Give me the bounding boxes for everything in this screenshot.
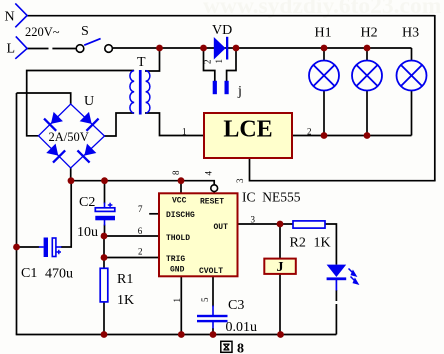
svg-text:j: j — [237, 84, 242, 99]
wire L to switch — [27, 48, 49, 50]
svg-text:1K: 1K — [117, 293, 134, 308]
wire transformer primary top — [145, 48, 160, 71]
svg-text:3: 3 — [235, 178, 245, 183]
capacitor C1 — [39, 238, 62, 258]
LED — [327, 265, 347, 291]
node junction (104,257.5) — [101, 254, 108, 261]
wire N rail to LCE pin 3 — [250, 158, 436, 181]
node junction (367,48) — [364, 45, 371, 52]
svg-text:H2: H2 — [361, 26, 378, 41]
wire H1 top stub — [323, 48, 325, 61]
wire pin 6 THOLD — [104, 235, 159, 237]
bridge rectifier U outline — [39, 104, 105, 168]
node junction (203.5,48) — [200, 45, 207, 52]
svg-text:R1: R1 — [117, 272, 133, 287]
wire C2 top stub — [104, 181, 106, 204]
node junction (16.5,247) — [13, 244, 20, 251]
svg-text:R2: R2 — [290, 236, 306, 251]
wire secondary bottom to bridge right — [105, 113, 135, 136]
wire pin 7 stub — [149, 213, 159, 215]
svg-text:7: 7 — [138, 204, 143, 214]
relay contact j — [213, 81, 217, 94]
svg-text:C1: C1 — [21, 266, 37, 281]
svg-text:10u: 10u — [77, 225, 98, 240]
svg-text:S: S — [81, 24, 89, 39]
svg-text:H1: H1 — [315, 26, 332, 41]
diode VD — [214, 37, 229, 60]
op IC NE555 box U1 — [159, 193, 238, 276]
svg-text:C3: C3 — [228, 298, 244, 313]
node junction (159.5,48) — [156, 45, 163, 52]
svg-text:THOLD: THOLD — [166, 234, 190, 243]
terminal L — [15, 36, 27, 58]
svg-text:VD: VD — [212, 23, 232, 38]
node junction (181,180.7) — [178, 177, 185, 184]
capacitor C3 — [197, 306, 228, 329]
svg-text:2: 2 — [307, 127, 312, 137]
transformer T secondary winding — [130, 71, 134, 113]
wire node column C2 to R1 — [103, 236, 105, 268]
svg-text:J: J — [277, 260, 284, 275]
wire top rail N — [27, 15, 435, 17]
svg-text:LCE: LCE — [223, 117, 272, 143]
wire VD anode to contact j — [204, 48, 215, 81]
svg-text:T: T — [137, 55, 146, 70]
wire right border — [434, 15, 436, 181]
wire H3 top — [411, 48, 413, 61]
resistor R2 — [293, 221, 325, 228]
wire LED cathode — [335, 290, 337, 301]
node junction (280,224) — [277, 221, 284, 228]
lamp H3 — [397, 61, 427, 91]
wire H1 bottom — [323, 91, 325, 136]
wire bridge bottom to +node — [70, 168, 72, 181]
svg-text:220V~: 220V~ — [25, 25, 60, 39]
wire relay J to ground rail — [279, 274, 281, 335]
wire pin 2 TRIG — [104, 257, 159, 259]
wire bottom ground rail — [16, 334, 337, 336]
bridge diode top-left — [43, 110, 64, 131]
block LCE — [204, 113, 292, 158]
svg-text:0.01u: 0.01u — [226, 320, 258, 335]
pin 4 reset circle — [211, 185, 218, 192]
node junction (104,334.5) — [101, 331, 108, 338]
switch S — [76, 45, 84, 53]
wire pin 3 OUT — [238, 223, 294, 225]
wire C1 right to +node — [61, 181, 71, 247]
svg-text:8: 8 — [171, 170, 181, 175]
relay coil J — [264, 259, 296, 274]
svg-text:U: U — [84, 94, 94, 109]
svg-text:N: N — [5, 10, 15, 25]
svg-text:C2: C2 — [79, 195, 95, 210]
svg-text:GND: GND — [170, 265, 185, 274]
node junction (367,135.5) — [364, 132, 371, 139]
lamp H1 — [309, 61, 339, 91]
wire pin 8 stub — [180, 181, 182, 193]
svg-text:4: 4 — [204, 171, 214, 176]
svg-text:L: L — [7, 42, 16, 57]
wire C1 left — [17, 246, 40, 248]
svg-text:H3: H3 — [402, 26, 419, 41]
wire R1 bottom — [103, 302, 105, 335]
bridge diode top-right — [78, 110, 99, 131]
capacitor C2 — [95, 203, 115, 226]
node junction (324,48) — [321, 45, 328, 52]
wire H3 bottom — [411, 91, 413, 136]
wire pin 4 stub — [213, 192, 215, 193]
node junction (236,48) — [233, 45, 240, 52]
lamp H2 — [352, 61, 382, 91]
node junction (71,180.7) — [68, 177, 75, 184]
svg-text:CVOLT: CVOLT — [199, 267, 223, 276]
wire pin 1 GND — [180, 277, 182, 335]
transformer T primary winding — [146, 71, 150, 113]
svg-text:1K: 1K — [314, 236, 331, 251]
resistor R1 — [100, 268, 108, 302]
svg-text:470u: 470u — [45, 267, 73, 282]
wire switch to lamps — [113, 47, 412, 49]
bridge diode bottom-right — [77, 142, 98, 163]
wire C3 to ground rail — [212, 328, 214, 335]
svg-text:8: 8 — [237, 342, 244, 354]
svg-text:2: 2 — [202, 60, 212, 65]
wire + rail — [71, 181, 215, 185]
wire secondary top to bridge left — [27, 71, 134, 136]
wire R2 to LED — [325, 224, 336, 265]
svg-text:OUT: OUT — [214, 223, 229, 232]
node junction (104,236) — [101, 233, 108, 240]
node junction (280.5,334.5) — [277, 331, 284, 338]
svg-text:IC NE555: IC NE555 — [242, 190, 301, 205]
wire LCE pin 1 to transformer — [145, 113, 204, 136]
wire left ground rail — [16, 93, 18, 335]
transformer T core — [139, 70, 142, 115]
node junction (181.3,334.5) — [178, 331, 185, 338]
wire H2 bottom — [366, 91, 368, 136]
svg-text:TRIG: TRIG — [166, 255, 185, 264]
caption 图 8 — [221, 341, 232, 352]
wire pin 5 CVOLT to C3 — [212, 277, 214, 307]
svg-text:3: 3 — [251, 215, 256, 225]
svg-text:1: 1 — [214, 59, 224, 64]
wire H2 top stub — [366, 48, 368, 61]
terminal N — [15, 3, 27, 27]
svg-text:DISCHG: DISCHG — [166, 211, 195, 220]
node junction (104.5,180.7) — [101, 177, 108, 184]
svg-text:RESET: RESET — [200, 197, 224, 206]
svg-text:1: 1 — [172, 298, 182, 303]
svg-text:6: 6 — [138, 226, 143, 236]
svg-text:2A/50V: 2A/50V — [49, 130, 89, 144]
wire OUT node to relay J — [279, 224, 281, 259]
bridge diode bottom-left — [45, 142, 66, 163]
node junction (324,135.5) — [321, 132, 328, 139]
svg-text:5: 5 — [200, 297, 210, 302]
wire VD cathode to contact j — [227, 48, 236, 81]
wire bridge top to ground rail — [17, 93, 71, 104]
LED arrows — [349, 269, 358, 284]
svg-text:2: 2 — [138, 247, 143, 257]
wire lamp rail to LCE pin 2 — [292, 135, 412, 137]
svg-text:VCC: VCC — [172, 197, 187, 206]
node junction (213,334.5) — [210, 331, 217, 338]
wire C2 bottom stub — [104, 225, 106, 237]
svg-text:1: 1 — [182, 127, 187, 137]
